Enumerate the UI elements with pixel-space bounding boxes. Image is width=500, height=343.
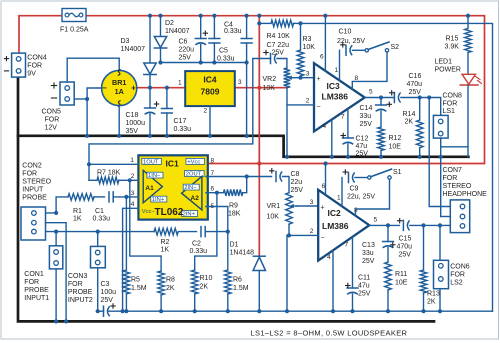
resistor R5 xyxy=(123,197,130,311)
resistor R2 xyxy=(154,228,196,235)
wire IC2 pin1 xyxy=(341,178,343,207)
label R2 xyxy=(161,239,170,254)
svg-text:22u: 22u xyxy=(291,179,303,186)
svg-text:Vcc−: Vcc− xyxy=(142,209,156,215)
svg-text:FOR: FOR xyxy=(27,63,42,70)
svg-text:FOR: FOR xyxy=(24,279,39,286)
connector CON8 xyxy=(433,115,448,138)
svg-text:D1: D1 xyxy=(230,242,239,249)
capacitor C10 xyxy=(341,43,353,56)
svg-text:CON3: CON3 xyxy=(68,273,88,280)
label CON3 xyxy=(68,273,93,304)
svg-text:S1: S1 xyxy=(393,169,402,176)
label R7 xyxy=(97,170,121,177)
wire 1OUT to C7 xyxy=(89,59,271,165)
svg-text:TL062: TL062 xyxy=(155,207,184,218)
svg-text:1N4007: 1N4007 xyxy=(165,28,190,35)
junction dots ground top xyxy=(85,97,249,138)
wire filter bus xyxy=(161,62,247,64)
capacitor C2 xyxy=(201,227,205,237)
label D2 xyxy=(165,20,190,35)
junction dots IC2 output xyxy=(386,223,442,227)
svg-text:R2: R2 xyxy=(161,239,170,246)
svg-text:STEREO: STEREO xyxy=(443,183,472,190)
wire IC3 pin2 ground column xyxy=(286,88,288,157)
wire C17 top xyxy=(166,88,168,109)
svg-text:A1: A1 xyxy=(145,185,154,192)
svg-text:3: 3 xyxy=(306,71,310,78)
svg-text:7: 7 xyxy=(345,242,349,249)
svg-text:1OUT: 1OUT xyxy=(143,160,159,166)
svg-text:PROBE: PROBE xyxy=(68,289,93,296)
svg-text:+: + xyxy=(131,84,136,93)
capacitor C8 xyxy=(270,169,283,182)
wire IC2 pin2 xyxy=(287,234,318,236)
svg-text:INPUT: INPUT xyxy=(22,187,44,194)
wire C18 bottom xyxy=(149,114,151,136)
junction dots IC3 output xyxy=(379,95,431,99)
svg-text:0.33u: 0.33u xyxy=(93,216,111,223)
svg-text:−: − xyxy=(102,84,107,93)
wire C17 bottom xyxy=(166,113,168,136)
resistor R13 xyxy=(420,225,427,311)
junction dots input line xyxy=(54,211,230,234)
svg-text:6: 6 xyxy=(211,186,215,193)
capacitor C1 xyxy=(109,192,113,202)
label CON6 xyxy=(450,264,470,287)
svg-text:+: + xyxy=(316,76,320,83)
connector CON5 xyxy=(60,82,74,105)
svg-text:HEADPHONE: HEADPHONE xyxy=(443,191,488,198)
label R6 xyxy=(233,277,249,293)
svg-text:1000u: 1000u xyxy=(126,120,146,127)
diode D2 xyxy=(154,37,166,49)
label C4 xyxy=(224,22,242,36)
capacitor C14 xyxy=(376,98,392,112)
svg-text:C9: C9 xyxy=(350,186,359,193)
wire ground left-bottom xyxy=(18,78,434,322)
wire C1 to IC1 pin3 xyxy=(113,196,138,198)
label C15 xyxy=(397,236,413,259)
connector CON1 xyxy=(49,246,62,269)
resistor R3 xyxy=(297,23,304,77)
junction dots filter bus xyxy=(158,60,248,64)
wire CON8 to ground and CON7 xyxy=(441,138,468,216)
wire CON6 top riser xyxy=(439,225,441,260)
svg-text:VR1: VR1 xyxy=(267,203,281,210)
svg-text:R7 18K: R7 18K xyxy=(97,170,121,177)
wire IC3 pin4 ground xyxy=(331,120,333,157)
wire LED1 cathode xyxy=(467,85,469,157)
wire 9V regulator input xyxy=(137,87,185,89)
svg-text:C13: C13 xyxy=(362,242,375,249)
label S1 xyxy=(393,169,402,176)
svg-text:18K: 18K xyxy=(228,211,241,218)
wire BR1 ac bottom to ground xyxy=(118,106,120,136)
wire CON2 middle to ground xyxy=(46,223,67,322)
wire ground bus bottom xyxy=(98,268,493,311)
svg-text:2IN+: 2IN+ xyxy=(183,212,196,218)
label IC2 pin numbers xyxy=(310,183,378,261)
label CON1 xyxy=(24,271,49,302)
svg-text:CON7: CON7 xyxy=(443,167,463,174)
svg-text:25V: 25V xyxy=(362,258,375,265)
svg-text:2IN−: 2IN− xyxy=(184,185,197,191)
svg-text:C3: C3 xyxy=(101,281,110,288)
svg-text:10K: 10K xyxy=(303,44,316,51)
wire IC3 pin2 xyxy=(287,104,314,106)
svg-text:A2: A2 xyxy=(191,195,200,202)
svg-text:R8: R8 xyxy=(166,277,175,284)
svg-text:1: 1 xyxy=(130,157,134,164)
svg-text:8: 8 xyxy=(211,158,215,165)
svg-text:C10: C10 xyxy=(339,29,352,36)
junction dots 9V line xyxy=(148,86,262,90)
svg-text:R4 10K: R4 10K xyxy=(267,33,291,40)
wire IC2 pin4 ground xyxy=(332,251,334,312)
svg-text:2K: 2K xyxy=(166,285,175,292)
label D3 xyxy=(121,38,146,53)
svg-text:+Vcc: +Vcc xyxy=(187,160,200,166)
svg-text:3.9K: 3.9K xyxy=(445,44,460,51)
svg-text:C5: C5 xyxy=(219,48,228,55)
svg-text:−: − xyxy=(316,104,320,111)
svg-text:4: 4 xyxy=(131,201,135,208)
label R8 xyxy=(166,277,175,293)
svg-text:12V: 12V xyxy=(45,125,58,132)
diode D1 xyxy=(253,256,265,270)
label R12 xyxy=(389,135,402,151)
label C11 xyxy=(358,275,371,298)
wire D1 to bus xyxy=(258,271,260,312)
wire input channel2 xyxy=(46,231,155,233)
wire C5 top xyxy=(213,16,215,39)
svg-text:C17: C17 xyxy=(174,118,187,125)
capacitor C16 xyxy=(390,91,401,103)
potentiometer VR1 xyxy=(286,193,297,225)
label C7 xyxy=(267,42,290,57)
wire IC4 pin2 ground xyxy=(209,106,211,136)
label CON7 xyxy=(443,167,488,198)
capacitor C7 xyxy=(264,50,277,63)
svg-text:6: 6 xyxy=(320,54,324,61)
wire VR1 bottom xyxy=(288,224,290,235)
svg-text:0.33u: 0.33u xyxy=(190,248,208,255)
resistor R8 xyxy=(130,180,165,311)
wire C6 top xyxy=(200,16,202,39)
wire IC3 pin1 xyxy=(339,50,341,80)
resistor R15 xyxy=(465,16,472,75)
label CON4 xyxy=(27,55,47,78)
label CON5 xyxy=(42,109,62,132)
label C5 xyxy=(217,48,235,63)
capacitor C17 xyxy=(162,109,173,114)
capacitor C18 xyxy=(145,102,159,115)
label CON8 xyxy=(443,93,463,116)
svg-text:C6: C6 xyxy=(179,39,188,46)
label C9 xyxy=(347,186,375,201)
svg-text:1IN+: 1IN+ xyxy=(152,197,165,203)
svg-text:C16: C16 xyxy=(409,73,422,80)
label C6 xyxy=(179,39,195,62)
label R13 xyxy=(427,291,440,306)
svg-text:25V: 25V xyxy=(101,297,114,304)
svg-text:5: 5 xyxy=(369,89,373,96)
svg-text:35V: 35V xyxy=(126,128,139,135)
junction dots bottom bus xyxy=(96,309,443,313)
label IC1 pin numbers xyxy=(130,157,214,210)
wire CON1 top riser xyxy=(55,232,57,246)
svg-text:9V: 9V xyxy=(27,71,36,78)
svg-text:C7 22u: C7 22u xyxy=(267,42,290,49)
svg-text:C15: C15 xyxy=(399,236,412,243)
svg-text:5: 5 xyxy=(374,217,378,224)
wire C18 top xyxy=(149,88,151,108)
wire D2 anode xyxy=(160,16,162,37)
svg-text:R10: R10 xyxy=(200,275,213,282)
svg-text:3: 3 xyxy=(131,190,135,197)
svg-text:BR1: BR1 xyxy=(112,78,126,87)
label C18 xyxy=(126,112,146,135)
svg-text:1K: 1K xyxy=(73,216,82,223)
junction dots top rail xyxy=(148,14,470,18)
connector CON2 xyxy=(21,207,46,240)
wire C15 to CON7 xyxy=(410,224,450,226)
svg-text:33u: 33u xyxy=(360,113,372,120)
svg-text:25V: 25V xyxy=(399,252,412,259)
wire IC1 pin7 xyxy=(206,176,272,178)
svg-text:R15: R15 xyxy=(446,36,459,43)
wire CON5 minus stub xyxy=(74,98,87,100)
op-amp IC3 xyxy=(314,63,365,131)
capacitor C4 xyxy=(241,39,252,44)
svg-text:25V: 25V xyxy=(409,89,422,96)
wire 9V regulator output xyxy=(235,87,287,89)
label C13 xyxy=(362,242,375,265)
capacitor C3 xyxy=(104,304,116,316)
svg-text:470u: 470u xyxy=(407,81,423,88)
diode D3 xyxy=(144,63,156,75)
svg-text:+: + xyxy=(320,205,324,212)
svg-text:IC3: IC3 xyxy=(327,81,341,91)
svg-text:1: 1 xyxy=(337,195,341,202)
wire CON2 top stub xyxy=(46,197,69,213)
label D1 xyxy=(230,242,255,257)
svg-text:4: 4 xyxy=(327,254,331,261)
svg-text:1K: 1K xyxy=(161,247,170,254)
label IC3 pin numbers xyxy=(306,54,373,131)
svg-text:0.33u: 0.33u xyxy=(217,56,235,63)
wire C8 to VR1 xyxy=(283,177,290,193)
capacitor C9 xyxy=(343,170,355,183)
svg-text:POWER: POWER xyxy=(435,67,461,74)
svg-text:C11: C11 xyxy=(358,275,370,282)
wire IC3 pin6 supply xyxy=(324,16,326,71)
svg-text:FOR: FOR xyxy=(22,171,37,178)
junction dot VR3 node xyxy=(287,76,303,238)
svg-text:10K: 10K xyxy=(267,214,280,221)
junction dots ground right xyxy=(285,155,443,159)
svg-text:0.33u: 0.33u xyxy=(224,28,242,35)
resistor R14 xyxy=(416,98,423,157)
capacitor C12 xyxy=(341,133,353,144)
svg-text:C1: C1 xyxy=(95,208,104,215)
svg-text:FOR: FOR xyxy=(45,117,60,124)
resistor R12 xyxy=(378,111,385,157)
label S2 xyxy=(391,44,400,51)
svg-text:−: − xyxy=(320,235,324,242)
svg-text:25V: 25V xyxy=(358,291,371,298)
svg-text:R14: R14 xyxy=(403,111,416,118)
op-amp IC2 xyxy=(318,190,369,261)
wire S1 to IC2 pin8 xyxy=(356,179,390,216)
wire IC2 pin5 output xyxy=(369,224,399,226)
svg-text:10E: 10E xyxy=(395,280,408,287)
caption loudspeaker note xyxy=(251,329,408,338)
svg-text:FOR: FOR xyxy=(68,281,83,288)
label C8 xyxy=(291,171,304,194)
svg-text:R5: R5 xyxy=(131,277,140,284)
svg-text:3: 3 xyxy=(238,79,242,86)
label R4 xyxy=(267,33,291,40)
wire D3 cathode xyxy=(149,75,151,88)
label R11 xyxy=(395,271,408,287)
wire D2 cathode xyxy=(160,48,162,63)
wire C6 bottom xyxy=(200,45,202,63)
wire C10 to S2 xyxy=(353,49,366,51)
op-amp IC1 xyxy=(138,155,207,219)
svg-text:25V: 25V xyxy=(291,187,304,194)
capacitor C6 xyxy=(195,31,207,45)
svg-text:LED1: LED1 xyxy=(435,59,453,66)
svg-text:CON2: CON2 xyxy=(22,163,42,170)
svg-text:CON6: CON6 xyxy=(450,264,470,271)
resistor R10 xyxy=(191,193,217,312)
wire 9V vertical branch xyxy=(258,16,260,256)
svg-text:FOR: FOR xyxy=(443,101,458,108)
label VR2 xyxy=(263,76,277,92)
connector CON3 xyxy=(91,246,106,267)
junction dot R4 tap xyxy=(257,21,302,25)
wire VR1 wiper to IC2 pin3 xyxy=(297,205,319,207)
svg-text:R1: R1 xyxy=(73,208,82,215)
svg-text:C8: C8 xyxy=(291,171,300,178)
svg-text:7: 7 xyxy=(341,114,345,121)
svg-text:3: 3 xyxy=(310,199,314,206)
svg-text:INPUT1: INPUT1 xyxy=(24,295,49,302)
wire IC3 pin7 xyxy=(347,109,349,138)
svg-text:LM386: LM386 xyxy=(322,221,349,231)
svg-text:F1 0.25A: F1 0.25A xyxy=(60,27,89,34)
svg-text:2OUT: 2OUT xyxy=(186,172,202,178)
LED LED1 xyxy=(460,74,481,85)
label C14 xyxy=(360,105,373,128)
wire IC2 pin2 ground xyxy=(286,235,288,311)
svg-text:VR2: VR2 xyxy=(263,76,277,83)
wire C2 to node xyxy=(205,231,228,233)
wire IC2 pin7 xyxy=(352,237,354,288)
connector CON4 xyxy=(12,53,26,77)
svg-text:1N4007: 1N4007 xyxy=(121,46,146,53)
svg-text:C14: C14 xyxy=(360,105,373,112)
wire C11 ground xyxy=(352,294,354,311)
svg-text:IC1: IC1 xyxy=(166,159,180,169)
junction dot feedback node xyxy=(87,162,132,199)
svg-text:LS1–LS2 = 8–OHM, 0.5W LOUDSPEA: LS1–LS2 = 8–OHM, 0.5W LOUDSPEAKER xyxy=(251,329,408,338)
capacitor C15 xyxy=(398,219,410,231)
svg-text:PROBE: PROBE xyxy=(24,287,49,294)
svg-text:47u: 47u xyxy=(358,283,370,290)
svg-text:CON5: CON5 xyxy=(42,109,62,116)
label F1 xyxy=(60,27,89,34)
capacitor C13 xyxy=(383,225,395,247)
svg-text:47u: 47u xyxy=(356,143,368,150)
svg-text:FOR: FOR xyxy=(443,175,458,182)
svg-text:10K: 10K xyxy=(263,85,276,92)
svg-text:0.33u: 0.33u xyxy=(174,126,192,133)
resistor R6 xyxy=(225,232,232,312)
label CON5 polarity xyxy=(51,83,56,98)
wire CON1 bottom to ground xyxy=(55,269,57,322)
label C1 xyxy=(93,208,111,223)
svg-text:220u: 220u xyxy=(179,47,195,54)
connector CON7 xyxy=(450,200,469,233)
resistor R9 xyxy=(224,177,247,197)
svg-text:2: 2 xyxy=(204,108,208,115)
svg-text:1.5M: 1.5M xyxy=(233,285,249,292)
svg-text:1IN−: 1IN− xyxy=(148,173,161,179)
wire 9V positive rail xyxy=(19,16,485,164)
wire IC1 pin2 xyxy=(130,179,139,181)
potentiometer VR2 xyxy=(284,68,295,88)
label C2 xyxy=(190,241,208,256)
svg-text:R13: R13 xyxy=(427,291,440,298)
wire C9 to S1 xyxy=(355,177,368,179)
regulator IC4 xyxy=(185,71,235,106)
wire CON3 top riser xyxy=(97,232,99,247)
label C12 xyxy=(356,136,369,158)
fuse F1 xyxy=(62,9,86,22)
junction dots supply bus xyxy=(257,161,327,165)
svg-text:1: 1 xyxy=(178,80,182,87)
resistor R11 xyxy=(385,248,392,312)
label CON2 xyxy=(22,163,51,202)
label R15 xyxy=(445,36,460,51)
resistor R4 xyxy=(259,20,300,27)
bridge rectifier BR1 xyxy=(102,70,137,107)
switch S2 xyxy=(365,42,389,52)
label C17 xyxy=(174,118,192,133)
label CON4 polarity xyxy=(4,57,8,71)
svg-text:1N4148: 1N4148 xyxy=(230,250,255,257)
connector CON6 xyxy=(434,260,449,288)
svg-text:FOR: FOR xyxy=(450,272,465,279)
svg-text:R9: R9 xyxy=(229,203,238,210)
svg-text:1: 1 xyxy=(335,67,339,74)
wire C5 bottom xyxy=(213,43,215,63)
wire IC1 pin1 xyxy=(89,163,138,165)
label C3 xyxy=(101,281,117,304)
switch S1 xyxy=(368,169,392,179)
svg-text:C18: C18 xyxy=(126,112,139,119)
svg-text:4: 4 xyxy=(323,123,327,130)
svg-text:2: 2 xyxy=(306,98,310,105)
svg-text:2K: 2K xyxy=(405,119,414,126)
svg-text:STEREO: STEREO xyxy=(22,179,51,186)
wire D3 anode xyxy=(149,16,151,63)
svg-text:CON1: CON1 xyxy=(24,271,44,278)
svg-text:2K: 2K xyxy=(427,299,436,306)
